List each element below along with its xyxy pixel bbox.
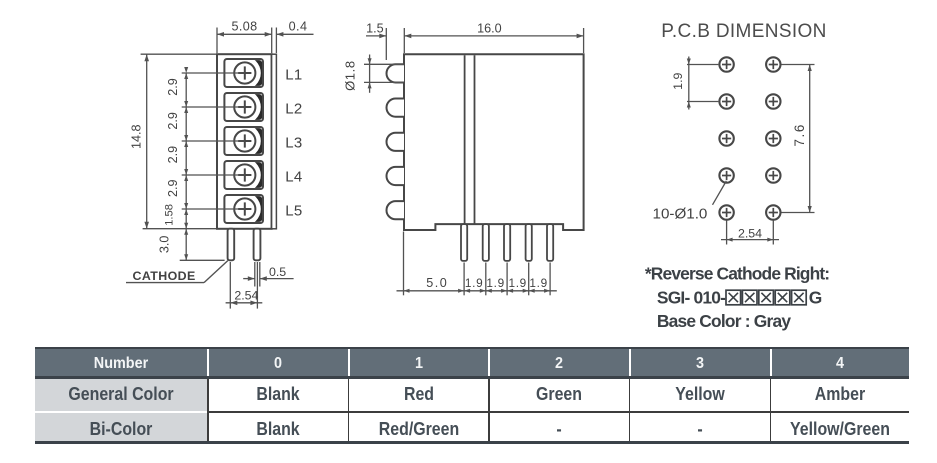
svg-text:2.9: 2.9 bbox=[166, 180, 180, 198]
side view: pin 5 bbox=[547, 224, 553, 261]
dimension 0.4 (lip width) bbox=[276, 19, 313, 53]
label 10-Ø1.0 with leader bbox=[653, 181, 727, 223]
dimension 5.08 (body width) bbox=[217, 19, 272, 53]
PCB dimension 7.6 (column height) bbox=[782, 65, 815, 213]
PCB hole left row 2 bbox=[719, 94, 733, 108]
svg-text:2.9: 2.9 bbox=[166, 78, 180, 96]
svg-text:7.6: 7.6 bbox=[792, 123, 807, 146]
PCB hole right row 3 bbox=[766, 131, 780, 145]
PCB hole left row 1 bbox=[719, 57, 733, 71]
LED cell L1 bbox=[224, 56, 263, 90]
front view: left pin (cathode) bbox=[228, 229, 235, 261]
svg-text:G: G bbox=[809, 287, 823, 307]
PCB dimension 1.9 (hole pitch) bbox=[671, 57, 718, 110]
side view: pin 3 bbox=[504, 224, 510, 261]
side view: pin 4 bbox=[526, 224, 532, 261]
dimension 1.5 (lens protrusion) bbox=[366, 21, 386, 60]
side view: LED lens bump 5 bbox=[387, 201, 405, 219]
front view: LED array body outline bbox=[217, 54, 272, 229]
svg-text:2.54: 2.54 bbox=[234, 289, 258, 303]
svg-text:2.9: 2.9 bbox=[166, 146, 180, 164]
svg-text:1.9: 1.9 bbox=[486, 276, 505, 290]
svg-text:3.0: 3.0 bbox=[157, 236, 171, 254]
side view: LED lens bump 3 bbox=[387, 133, 405, 151]
side view: LED lens bump 4 bbox=[387, 167, 405, 185]
svg-text:1.9: 1.9 bbox=[465, 276, 484, 290]
dimension chain line 2.9 pitch bbox=[184, 67, 188, 260]
LED cell L3 bbox=[224, 124, 263, 158]
svg-text:5.0: 5.0 bbox=[426, 276, 448, 290]
svg-text:1.9: 1.9 bbox=[508, 276, 527, 290]
pin-bottom reference line bbox=[180, 259, 225, 261]
dimension chain 5.0 / 1.9 pitch bbox=[397, 232, 557, 296]
svg-text:Ø1.8: Ø1.8 bbox=[343, 60, 358, 91]
table bottom border bbox=[58, 354, 184, 373]
svg-text:1.9: 1.9 bbox=[529, 276, 548, 290]
dimension 2.54 (pin pitch) bbox=[226, 262, 263, 309]
side view: body outline with bottom feet bbox=[404, 54, 584, 230]
PCB hole right row 1 bbox=[766, 57, 780, 71]
side view: LED lens bump 2 bbox=[387, 99, 405, 117]
note: SGI-010 part number with option boxes bbox=[657, 287, 822, 307]
svg-text:0.4: 0.4 bbox=[289, 19, 308, 33]
side view: pin 1 bbox=[461, 224, 467, 261]
side view: pin 2 bbox=[483, 224, 489, 261]
svg-text:1.9: 1.9 bbox=[671, 72, 685, 89]
svg-text:P.C.B DIMENSION: P.C.B DIMENSION bbox=[661, 21, 826, 42]
svg-text:1.5: 1.5 bbox=[366, 21, 384, 35]
side view: LED lens bump 1 bbox=[387, 64, 404, 82]
svg-text:16.0: 16.0 bbox=[477, 21, 502, 35]
dimension 16.0 (body length) bbox=[404, 21, 583, 53]
svg-text:L1: L1 bbox=[285, 67, 302, 84]
svg-text:2.54: 2.54 bbox=[738, 227, 762, 241]
LED cell L4 bbox=[224, 158, 263, 192]
front view: right pin bbox=[254, 229, 261, 261]
svg-text:L3: L3 bbox=[285, 135, 302, 152]
front view: right side lip (0.4mm flange) bbox=[272, 54, 277, 229]
LED center leader lines bbox=[182, 73, 245, 209]
svg-text:Base Color : Gray: Base Color : Gray bbox=[657, 311, 791, 331]
svg-text:1.58: 1.58 bbox=[163, 204, 175, 226]
svg-text:L4: L4 bbox=[285, 169, 302, 186]
PCB hole right row 5 bbox=[766, 205, 780, 219]
svg-text:CATHODE: CATHODE bbox=[133, 269, 196, 283]
PCB hole right row 2 bbox=[766, 94, 780, 108]
table top border bbox=[35, 349, 910, 375]
svg-text:*Reverse Cathode Right:: *Reverse Cathode Right: bbox=[645, 263, 829, 283]
PCB hole right row 4 bbox=[766, 168, 780, 182]
dimension Ø1.8 (lens diameter) bbox=[343, 55, 404, 93]
header bottom band bbox=[35, 379, 208, 410]
PCB hole left row 3 bbox=[719, 131, 733, 145]
side view: internal seam lines bbox=[464, 55, 466, 223]
dimension 14.8 (body height) bbox=[129, 54, 216, 229]
svg-text:5.08: 5.08 bbox=[231, 19, 257, 33]
header background bbox=[207, 349, 209, 375]
CATHODE label and leader bbox=[126, 261, 228, 283]
svg-text:2.9: 2.9 bbox=[166, 112, 180, 130]
svg-text:0.5: 0.5 bbox=[269, 265, 286, 279]
PCB dimension 2.54 (row pitch) bbox=[721, 221, 779, 245]
svg-text:SGI- 010-: SGI- 010- bbox=[657, 287, 726, 307]
svg-text:L2: L2 bbox=[285, 101, 302, 118]
LED cell L2 bbox=[224, 90, 263, 124]
svg-text:10-Ø1.0: 10-Ø1.0 bbox=[653, 206, 708, 223]
color code table bbox=[35, 347, 910, 349]
PCB hole left row 4 bbox=[719, 168, 733, 182]
svg-text:14.8: 14.8 bbox=[129, 124, 143, 149]
dimension 0.5 (pin width) bbox=[243, 262, 293, 287]
PCB hole left row 5 bbox=[719, 205, 733, 219]
svg-text:L5: L5 bbox=[285, 203, 302, 220]
LED cell L5 bbox=[224, 192, 263, 226]
